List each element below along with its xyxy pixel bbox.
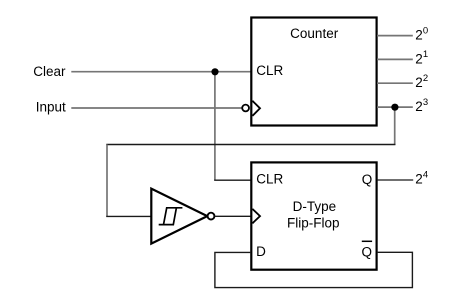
wire: into schmitt trigger input [106, 215, 151, 217]
schmitt hysteresis symbol [159, 208, 183, 225]
wire: Clear node down to flip-flop row [214, 72, 216, 181]
wire: Q-bar feedback loop to D input [215, 252, 413, 287]
svg-text:Flip-Flop: Flip-Flop [287, 216, 340, 231]
wire: feedback horizontal run [106, 144, 395, 146]
junction: 2^3 node [391, 104, 398, 111]
svg-text:Counter: Counter [290, 26, 339, 41]
wire: counter output 2^1 [377, 58, 413, 60]
wire: counter output 2^3 [377, 106, 413, 108]
svg-text:D: D [256, 244, 266, 259]
svg-text:Q: Q [362, 244, 373, 259]
svg-text:Clear: Clear [33, 64, 66, 79]
schmitt output bubble [208, 213, 215, 220]
wire: counter output 2^2 [377, 82, 413, 84]
svg-text:D-Type: D-Type [293, 199, 337, 214]
wire: into flip-flop CLR pin [214, 179, 251, 181]
wire: Input to counter clock bubble [71, 107, 241, 109]
svg-text:Input: Input [36, 99, 66, 114]
svg-text:Q: Q [362, 172, 373, 187]
junction: Clear node [211, 68, 218, 75]
counter U1 [251, 18, 376, 126]
svg-text:CLR: CLR [256, 171, 283, 186]
wire: counter output 2^0 [377, 35, 413, 37]
flip-flop Q-bar overbar [362, 240, 372, 242]
flip-flop U3 [251, 162, 376, 269]
wire: feedback down left side [106, 145, 108, 218]
wire: Clear to counter CLR [71, 71, 251, 73]
schmitt trigger U2 triangle [151, 189, 207, 244]
wire: Q output to 2^4 [377, 179, 413, 181]
svg-text:CLR: CLR [256, 63, 283, 78]
flip-flop clock wedge [252, 209, 260, 223]
wire: schmitt output to flip-flop clock [215, 215, 251, 217]
wire: 2^3 node down [394, 107, 396, 145]
counter clock bubble [242, 105, 249, 112]
counter clock wedge [252, 101, 260, 116]
